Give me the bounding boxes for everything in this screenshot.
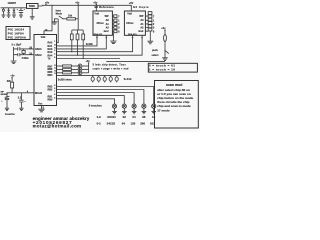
wire T0 net [57, 58, 121, 60]
label 3x330 ohms [58, 79, 73, 82]
touch pad 4 [142, 104, 147, 114]
label 1N4007 [8, 2, 17, 5]
op-amp U1 PIC16F84 MCU body [34, 35, 57, 106]
wire AC input rail [1, 7, 27, 9]
ground (AC plug) [1, 15, 5, 17]
capacitor touch 2.2 [18, 93, 27, 108]
resistor R11 10k [97, 75, 100, 82]
label 3x10k [86, 43, 93, 46]
node +5v ref eeprom [93, 1, 98, 11]
box scan note [155, 81, 199, 129]
pin 4 MCLR [27, 90, 29, 93]
LED D3 [71, 64, 88, 68]
wire regulator output [38, 4, 42, 7]
connector socket pads U3 [112, 15, 117, 33]
box touch logic [148, 63, 197, 72]
ground (inter mode) [52, 22, 58, 24]
label touche [5, 112, 15, 116]
ground (MCU Vss) [38, 109, 44, 112]
LED D5 [71, 71, 88, 75]
switch reset button [1, 93, 9, 108]
MCU bottom Vss pin 5 [42, 106, 45, 110]
node +5v select [161, 27, 166, 35]
label leds note [93, 63, 129, 70]
resistor R10 10k [91, 75, 94, 82]
resistor R4 10k [70, 30, 73, 52]
wire RB4 touch feed [57, 74, 122, 76]
ground (select) [162, 58, 168, 61]
ground (regulator) [30, 17, 35, 19]
touch pad 1 [112, 104, 117, 114]
wire RA1 net [57, 35, 99, 46]
pin 15 OSC2 [29, 52, 32, 55]
diode D2 [13, 8, 16, 15]
resistor R14 10k [115, 75, 118, 82]
IC U4 24Cxx copy [124, 11, 145, 36]
capacitor C2 [14, 47, 35, 50]
wire RA0 net SDA1 [57, 35, 108, 49]
wire +5v top rail [42, 4, 131, 6]
ground (D2) [12, 15, 16, 17]
ground (touch cap) [19, 108, 23, 110]
connector socket pads U4 [145, 12, 152, 32]
wire RB0 bus [57, 96, 125, 105]
pin numbers U3 [118, 15, 120, 33]
IC U3 24Cxx reference [93, 11, 112, 36]
node +5v MCLR [10, 75, 15, 83]
label credits [33, 116, 90, 128]
wire RB2 bus [57, 90, 144, 105]
pin 16 OSC1 [29, 47, 32, 50]
wire touch bus 5 [57, 99, 115, 104]
+5v arrowheads [11, 4, 166, 79]
wire pullup feed [77, 5, 79, 30]
label 4 MHz [22, 57, 30, 60]
touch pad 2 [122, 104, 127, 114]
diode D1 [7, 8, 10, 15]
resistor R2 22k [11, 82, 14, 93]
capacitor C3 [14, 53, 35, 56]
ground (crystal) [11, 61, 17, 64]
capacitor C1 [19, 8, 23, 15]
resistor R7 330 [63, 65, 72, 67]
wire pullup rail [72, 29, 83, 31]
ground (U3) [110, 33, 116, 44]
ground (reset button) [5, 108, 9, 110]
wire RB5 LED row [57, 72, 63, 74]
label 2x15pF [12, 44, 22, 47]
touch pad 3 [132, 104, 137, 114]
crystal ground bus [13, 47, 15, 61]
label E2 Copie [133, 5, 149, 9]
resistor R6 10k [82, 30, 85, 59]
ground (D1) [7, 15, 11, 17]
crystal X1 [22, 49, 25, 55]
resistor R5 10k [76, 30, 79, 56]
node +5v pullups [75, 1, 80, 5]
wire Vdd drop to MCU [44, 5, 53, 35]
resistor R9 330 [63, 72, 72, 74]
wire switch to RA2 [57, 19, 59, 43]
wire RB3 bus [57, 87, 154, 105]
label push select [152, 49, 159, 57]
MCU right pin labels [48, 42, 54, 102]
label Inter Mode [56, 9, 63, 15]
label E2 Reference [95, 5, 115, 9]
wire RB6 LED row [57, 68, 63, 70]
node +5V copy eeprom [129, 2, 134, 11]
AC plug J1 [2, 8, 4, 15]
wire RA4 net SDA2 [57, 35, 144, 55]
resistor R3 10k [63, 18, 78, 20]
label chip row 1 [97, 115, 156, 119]
wire regulator ground [31, 8, 33, 16]
wire select net [106, 60, 165, 62]
resistor R13 10k [109, 75, 112, 82]
label chip row 2 [97, 121, 156, 125]
resistor R15 select pullup [164, 35, 167, 52]
wire MCLR net [7, 92, 35, 94]
PIC list box [6, 27, 30, 40]
switch inter mode [54, 16, 63, 22]
label MP RESET [1, 91, 9, 96]
ground (C1) [19, 15, 23, 17]
node +5v LEDs [86, 60, 91, 73]
regulator U2 7805 [27, 4, 39, 9]
pin 14 Vdd [45, 28, 48, 31]
switch select button [165, 51, 169, 58]
pin numbers MCU right [54, 41, 56, 99]
label 5x10k [124, 78, 132, 81]
label 22k [7, 80, 12, 83]
label 5 touches [89, 104, 103, 108]
resistor R12 10k [103, 75, 106, 82]
wire RB1 bus [57, 93, 135, 105]
label 10k [68, 15, 73, 18]
touch pad 5 [151, 104, 156, 114]
LED D4 [71, 68, 88, 72]
wire RB7 LED row [57, 65, 63, 67]
node +5v main [45, 1, 50, 5]
pin numbers U4 [153, 15, 155, 33]
ground (U4) [147, 31, 153, 44]
wire RA3 net SCL [57, 35, 134, 51]
resistor R8 330 [63, 68, 72, 70]
